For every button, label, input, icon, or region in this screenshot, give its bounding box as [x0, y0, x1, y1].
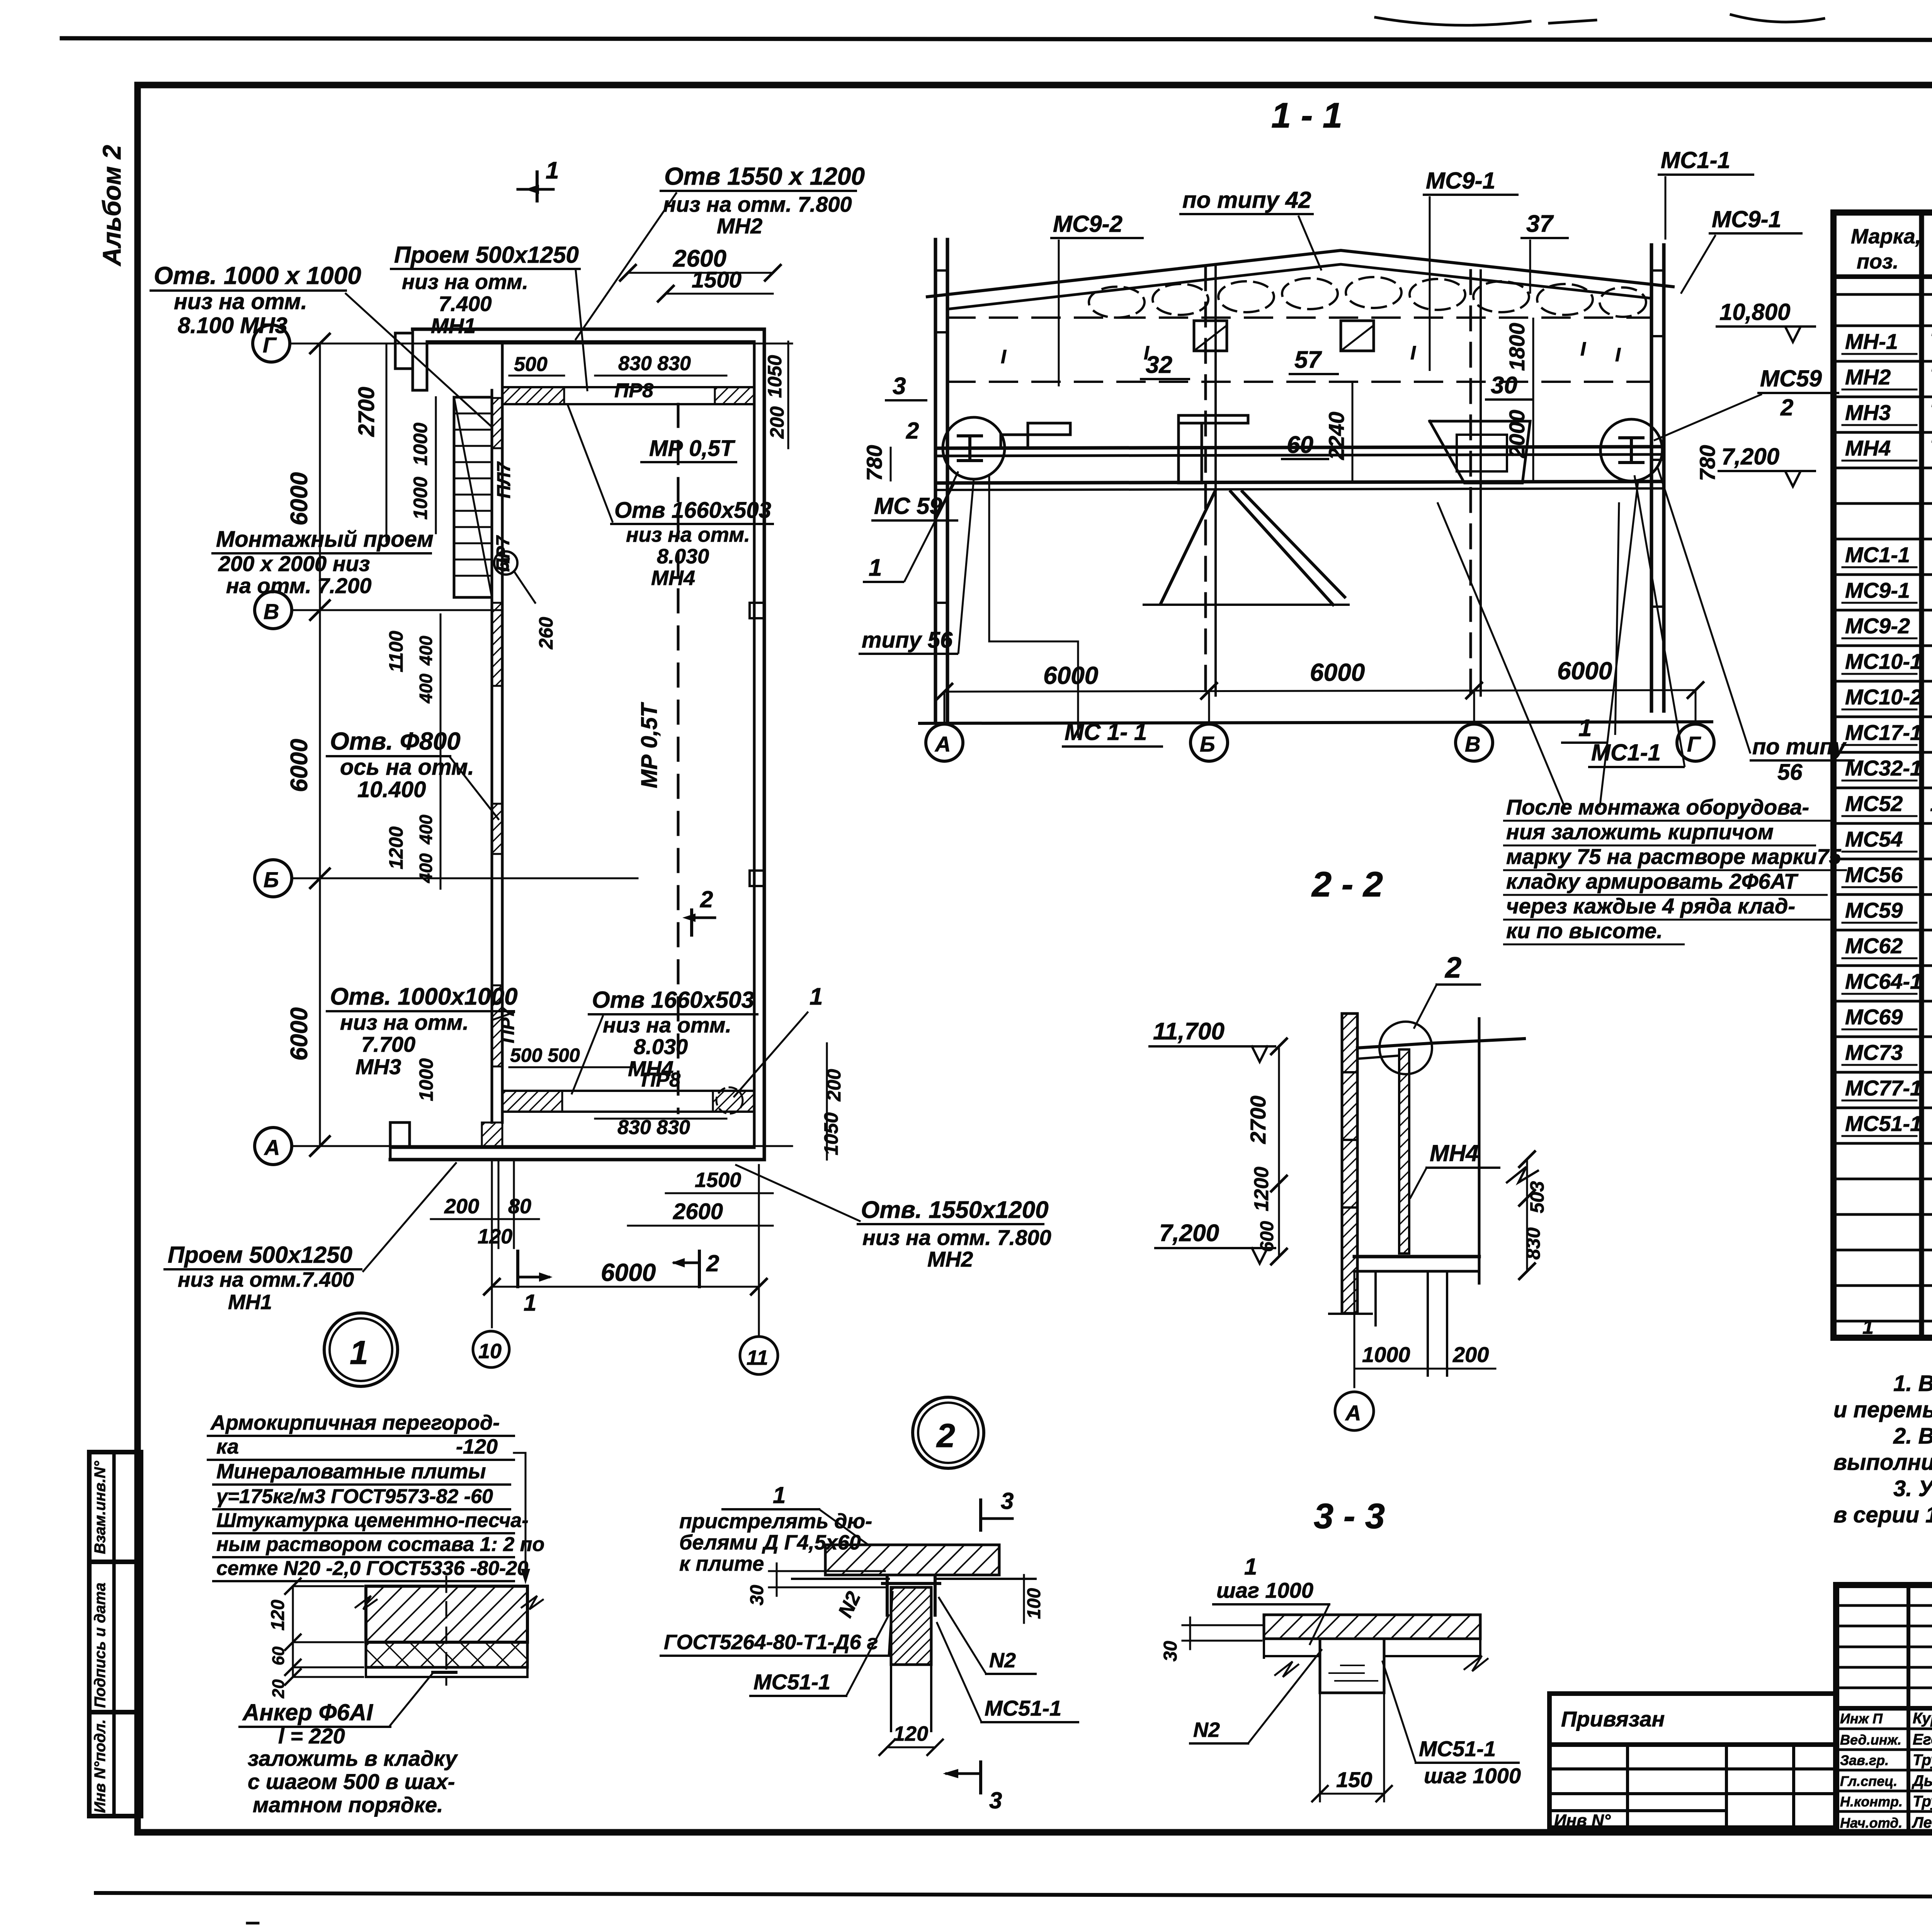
section mark 1 top flag — [536, 172, 539, 201]
svg-text:200 х 2000 низ: 200 х 2000 низ — [218, 551, 370, 576]
svg-text:МН2: МН2 — [927, 1247, 973, 1271]
svg-text:В: В — [264, 599, 279, 624]
svg-text:В: В — [1465, 732, 1480, 756]
svg-text:выполнить перемычку из 3Ф8А: выполнить перемычку из 3Ф8АI — [1833, 1450, 1932, 1475]
svg-text:1000: 1000 — [410, 423, 431, 466]
svg-text:МН4: МН4 — [1845, 436, 1891, 460]
svg-text:1200: 1200 — [1250, 1167, 1273, 1211]
svg-text:по типу 42: по типу 42 — [1182, 187, 1311, 213]
svg-text:I: I — [1615, 344, 1621, 366]
crane rail dashed line MR05T — [677, 404, 680, 1113]
svg-text:3: 3 — [893, 373, 906, 400]
hopper near V axis — [1430, 421, 1530, 483]
top wall of plan — [413, 328, 764, 331]
svg-text:поз.: поз. — [1857, 250, 1899, 273]
svg-text:низ на отм.: низ на отм. — [402, 270, 528, 294]
svg-text:150: 150 — [1336, 1767, 1372, 1792]
svg-text:2: 2 — [906, 418, 919, 444]
axis circle V — [1456, 724, 1493, 761]
svg-text:3 - 3: 3 - 3 — [1314, 1497, 1385, 1536]
svg-text:Армокирпичная перегород-: Армокирпичная перегород- — [210, 1411, 500, 1434]
axis line V — [292, 609, 502, 611]
left part verticals — [1906, 1585, 1910, 1832]
svg-text:60: 60 — [1287, 432, 1313, 458]
break marks — [355, 1596, 377, 1609]
svg-text:200: 200 — [1452, 1342, 1489, 1367]
svg-text:1000: 1000 — [415, 1058, 437, 1101]
roof lower chord — [947, 264, 1651, 309]
svg-text:10: 10 — [478, 1340, 502, 1363]
top centre scan scribbles — [1376, 17, 1530, 25]
svg-text:1: 1 — [1244, 1554, 1257, 1580]
grid axis circle B — [255, 860, 292, 897]
ground mark — [1329, 1313, 1372, 1315]
svg-text:ТП409-28-61.92: ТП409-28-61.92 — [1930, 364, 1932, 389]
section mark 3 top — [979, 1500, 982, 1530]
svg-text:120: 120 — [268, 1600, 288, 1631]
svg-text:2 - 2: 2 - 2 — [1311, 865, 1383, 904]
svg-text:Н.контр.: Н.контр. — [1840, 1794, 1903, 1810]
svg-text:l = 220: l = 220 — [278, 1724, 345, 1748]
plaster layer — [366, 1667, 527, 1677]
svg-text:37: 37 — [1526, 211, 1554, 237]
svg-text:ки по высоте.: ки по высоте. — [1506, 918, 1663, 943]
svg-text:N2: N2 — [1193, 1718, 1220, 1742]
svg-text:500 500: 500 500 — [510, 1044, 580, 1066]
svg-text:МН2: МН2 — [717, 214, 762, 238]
svg-text:Марка,: Марка, — [1851, 225, 1921, 248]
svg-text:Отв 1550 х 1200: Отв 1550 х 1200 — [664, 162, 865, 190]
svg-text:МС1-1: МС1-1 — [1845, 543, 1910, 567]
right wall notch at V axis — [750, 603, 764, 618]
svg-text:низ на отм.: низ на отм. — [174, 289, 307, 314]
bottom wall of plan — [390, 1158, 764, 1162]
break marks — [1275, 1662, 1298, 1677]
svg-text:I: I — [1001, 346, 1007, 367]
svg-text:80: 80 — [508, 1195, 531, 1218]
grid below — [1549, 1745, 1836, 1828]
svg-text:Отв. 1550х1200: Отв. 1550х1200 — [861, 1197, 1049, 1223]
svg-text:кладку армировать 2Ф6АТ: кладку армировать 2Ф6АТ — [1506, 869, 1799, 893]
svg-text:МС73: МС73 — [1845, 1040, 1903, 1065]
left column — [934, 240, 937, 723]
detail circle left MC59 — [943, 417, 1005, 479]
title block outer — [1836, 1585, 1932, 1832]
small box 32 — [1194, 321, 1227, 351]
svg-text:1: 1 — [524, 1290, 536, 1316]
svg-text:через каждые 4 ряда клад-: через каждые 4 ряда клад- — [1506, 894, 1795, 918]
svg-text:низ на отм. 7.800: низ на отм. 7.800 — [663, 192, 852, 216]
roof line — [1357, 1039, 1524, 1048]
ceiling dashed line — [947, 316, 1651, 319]
svg-text:МН4: МН4 — [1430, 1140, 1479, 1166]
dim 100 right rot — [1023, 1575, 1025, 1623]
svg-text:830 830: 830 830 — [617, 1116, 690, 1139]
svg-text:400: 400 — [416, 853, 436, 883]
svg-text:6000: 6000 — [286, 739, 313, 792]
leader to wall — [346, 294, 492, 427]
svg-text:МС62: МС62 — [1845, 934, 1903, 958]
node circle 5 — [494, 551, 517, 575]
svg-text:1.431.6-28. вып.2: 1.431.6-28. вып.2 — [1930, 791, 1932, 816]
svg-text:ния заложить кирпичом: ния заложить кирпичом — [1506, 820, 1774, 844]
svg-text:100: 100 — [1024, 1588, 1044, 1619]
channel under slab — [886, 1577, 889, 1615]
svg-text:сетке N20 -2,0 ГОСТ5336 -80-20: сетке N20 -2,0 ГОСТ5336 -80-20 — [216, 1557, 528, 1580]
svg-text:Проем 500х1250: Проем 500х1250 — [168, 1242, 352, 1268]
svg-text:7.700: 7.700 — [361, 1032, 415, 1056]
svg-text:1: 1 — [869, 554, 882, 581]
svg-text:1100: 1100 — [385, 631, 407, 672]
svg-text:1: 1 — [350, 1334, 368, 1371]
svg-text:I: I — [1580, 338, 1586, 360]
svg-text:57: 57 — [1294, 347, 1322, 373]
svg-text:Взам.инв.N°: Взам.инв.N° — [92, 1461, 109, 1554]
spec table column lines — [1919, 213, 1924, 1338]
svg-text:МС9-1: МС9-1 — [1845, 578, 1910, 602]
pier below — [1320, 1639, 1384, 1693]
svg-text:200: 200 — [766, 406, 788, 439]
diagonal braces — [1161, 490, 1216, 603]
svg-text:500: 500 — [514, 353, 548, 376]
svg-text:1: 1 — [1862, 1316, 1874, 1338]
svg-text:1. Ведомости проемов ворот: 1. Ведомости проемов ворот и дверей, спе… — [1893, 1371, 1932, 1396]
detail node circle 1 — [324, 1313, 398, 1386]
svg-text:Анкер Ф6АI: Анкер Ф6АI — [242, 1699, 373, 1725]
svg-text:МР 0,5Т: МР 0,5Т — [649, 436, 736, 461]
svg-text:МС1-1: МС1-1 — [1661, 147, 1730, 173]
svg-text:6000: 6000 — [1557, 657, 1612, 685]
svg-text:780: 780 — [1695, 445, 1719, 481]
svg-text:8.030: 8.030 — [657, 545, 709, 568]
svg-text:2600: 2600 — [673, 1199, 723, 1224]
svg-text:Монтажный проем: Монтажный проем — [216, 527, 434, 552]
svg-text:МС69: МС69 — [1845, 1005, 1903, 1029]
svg-text:МС59: МС59 — [1845, 898, 1903, 922]
under-slab lines — [1264, 1638, 1480, 1640]
grid circle 10 — [473, 1331, 509, 1367]
svg-text:Куркина: Куркина — [1913, 1710, 1932, 1727]
section mark 2 bottom — [698, 1251, 701, 1287]
svg-text:ГОСТ5264-80-Т1-Д6 г: ГОСТ5264-80-Т1-Д6 г — [664, 1631, 878, 1654]
left wall of plan — [491, 390, 493, 1122]
svg-text:2240: 2240 — [1324, 412, 1349, 460]
anchor mark in wall — [433, 1671, 456, 1674]
svg-text:1000: 1000 — [410, 477, 431, 520]
top-left corner notch — [413, 329, 427, 390]
svg-text:200: 200 — [444, 1195, 479, 1218]
spec table row lines — [1833, 293, 1932, 296]
svg-text:Проем 500х1250: Проем 500х1250 — [394, 242, 579, 268]
wall section: brick layer — [366, 1586, 527, 1642]
bottom sheet edge line — [96, 1893, 1932, 1898]
svg-text:ка: ка — [216, 1435, 239, 1458]
svg-text:10.400: 10.400 — [357, 777, 426, 802]
svg-text:МС10-1: МС10-1 — [1845, 649, 1922, 673]
svg-text:ПР8: ПР8 — [641, 1069, 680, 1091]
spec table header bottom — [1833, 274, 1932, 279]
svg-text:γ=175кг/м3 ГОСТ9573-82 -60: γ=175кг/м3 ГОСТ9573-82 -60 — [216, 1485, 493, 1508]
svg-text:Дыба: Дыба — [1912, 1772, 1932, 1789]
svg-text:Б: Б — [1200, 732, 1215, 756]
svg-text:5: 5 — [499, 555, 510, 575]
svg-text:400: 400 — [416, 636, 436, 666]
svg-text:МН2: МН2 — [1845, 365, 1891, 389]
svg-text:8.030: 8.030 — [634, 1034, 688, 1059]
svg-text:и перемычек см. лист 9: и перемычек см. лист 9 — [1833, 1397, 1932, 1422]
arrow from text to drawing — [514, 1453, 526, 1577]
svg-text:400: 400 — [416, 815, 436, 845]
svg-text:I: I — [1410, 342, 1416, 364]
svg-text:Вед.инж.: Вед.инж. — [1840, 1732, 1901, 1748]
svg-text:МН4: МН4 — [651, 566, 695, 590]
svg-text:3: 3 — [1001, 1488, 1014, 1514]
axis circle G — [1677, 724, 1714, 761]
partition hatched — [1399, 1049, 1409, 1253]
svg-text:Лебедев: Лебедев — [1912, 1814, 1932, 1831]
svg-text:11: 11 — [747, 1346, 768, 1369]
svg-text:МС9-2: МС9-2 — [1845, 614, 1910, 638]
svg-text:Отв. 1000 х 1000: Отв. 1000 х 1000 — [154, 262, 361, 289]
svg-text:МС32-1: МС32-1 — [1845, 756, 1922, 780]
axis line B — [292, 878, 638, 879]
section mark 2 mid flag — [692, 917, 715, 919]
svg-text:6000: 6000 — [1043, 662, 1098, 689]
svg-text:МН3: МН3 — [1845, 400, 1891, 425]
svg-text:N2: N2 — [989, 1649, 1016, 1672]
left wall hatch patches — [492, 398, 502, 448]
svg-text:МС51-1: МС51-1 — [1419, 1736, 1496, 1761]
svg-text:А: А — [1345, 1401, 1361, 1425]
svg-text:МС9-2: МС9-2 — [1053, 211, 1122, 237]
extension verticals to bottom circles — [491, 1160, 493, 1327]
line under slab — [792, 1578, 889, 1580]
svg-text:Минераловатные плиты: Минераловатные плиты — [216, 1460, 486, 1483]
svg-text:1500: 1500 — [695, 1168, 741, 1192]
svg-text:30: 30 — [1491, 372, 1517, 399]
svg-text:Подпись и дата: Подпись и дата — [92, 1583, 109, 1708]
svg-text:1050: 1050 — [820, 1112, 842, 1155]
svg-text:2: 2 — [700, 886, 713, 912]
svg-text:МС9-1: МС9-1 — [1712, 206, 1781, 232]
svg-text:1200: 1200 — [385, 827, 407, 869]
slab voids ovals — [1089, 277, 1646, 318]
svg-text:2: 2 — [1780, 395, 1793, 420]
svg-text:Трубникова: Трубникова — [1913, 1793, 1932, 1810]
dim line left — [1278, 1046, 1280, 1257]
svg-text:30: 30 — [747, 1585, 767, 1605]
svg-text:120: 120 — [478, 1225, 512, 1248]
equipment shape near B — [1179, 415, 1248, 483]
svg-text:6000: 6000 — [1310, 658, 1365, 686]
svg-text:Штукатурка цементно-песча-: Штукатурка цементно-песча- — [216, 1509, 529, 1532]
svg-text:на отм. 7.200: на отм. 7.200 — [226, 573, 371, 598]
svg-text:ным раствором состава 1: 2 по: ным раствором состава 1: 2 по — [216, 1533, 544, 1556]
spec table outer border — [1833, 213, 1932, 1338]
svg-text:ПР8: ПР8 — [614, 379, 653, 402]
svg-text:Отв 1660х503: Отв 1660х503 — [592, 987, 754, 1013]
svg-text:МС 59: МС 59 — [874, 493, 942, 519]
section mark 1 bottom — [516, 1251, 519, 1287]
svg-text:низ на отм. 7.800: низ на отм. 7.800 — [862, 1225, 1051, 1250]
svg-text:30: 30 — [1160, 1641, 1181, 1662]
svg-text:с шагом 500 в шах-: с шагом 500 в шах- — [248, 1769, 455, 1794]
svg-text:400: 400 — [416, 673, 436, 704]
svg-text:Инв N°: Инв N° — [1554, 1811, 1611, 1830]
svg-text:После монтажа оборудова-: После монтажа оборудова- — [1506, 795, 1809, 819]
privyazan box — [1549, 1694, 1836, 1745]
svg-text:32: 32 — [1146, 352, 1172, 378]
intermediate post B axis — [1204, 267, 1207, 696]
svg-text:7.400: 7.400 — [439, 292, 492, 316]
svg-text:к плите: к плите — [679, 1552, 764, 1575]
grid axis circle A — [255, 1128, 292, 1165]
svg-text:1050: 1050 — [764, 355, 786, 398]
svg-text:2: 2 — [936, 1417, 955, 1454]
floor slab — [1354, 1255, 1479, 1259]
right dim 503 830 — [1526, 1159, 1528, 1271]
pier below floor — [1427, 1271, 1429, 1376]
floor beam lines — [935, 447, 1664, 448]
svg-text:6000: 6000 — [601, 1259, 656, 1286]
svg-text:2. В перегородках b = 120мм: 2. В перегородках b = 120мм над проемами… — [1893, 1423, 1932, 1449]
grid axis circle G — [253, 325, 290, 362]
axis circle B — [1190, 724, 1228, 761]
svg-text:А: А — [264, 1135, 280, 1160]
bottom dim line 6000x3 — [944, 690, 1696, 692]
svg-text:шаг 1000: шаг 1000 — [1424, 1764, 1521, 1788]
svg-text:МС1-1: МС1-1 — [1591, 740, 1661, 765]
svg-text:Б: Б — [264, 867, 279, 892]
bottom small tick — [247, 1922, 258, 1925]
svg-text:56: 56 — [1777, 760, 1803, 785]
svg-text:Нач.отд.: Нач.отд. — [1840, 1815, 1902, 1831]
bottom dim 6000 — [492, 1286, 759, 1288]
svg-text:МС54: МС54 — [1845, 827, 1903, 851]
svg-text:-120: -120 — [456, 1435, 498, 1458]
svg-text:матном порядке.: матном порядке. — [253, 1793, 443, 1817]
insulation layer — [366, 1642, 527, 1667]
svg-text:МС 1- 1: МС 1- 1 — [1065, 719, 1147, 745]
svg-text:Инв N°подл.: Инв N°подл. — [92, 1719, 109, 1813]
detail circle right — [1600, 419, 1662, 481]
svg-text:Егоров: Егоров — [1913, 1731, 1932, 1748]
bottom opening lintel band PR8 — [502, 1090, 754, 1092]
axis circle A below — [1354, 1271, 1355, 1387]
svg-text:1: 1 — [810, 983, 823, 1010]
svg-text:Альбом 2: Альбом 2 — [97, 145, 126, 267]
svg-text:3. Узлы замаркированные на: 3. Узлы замаркированные на сечении 1-1 в… — [1893, 1476, 1932, 1501]
top opening lintel band PR8 — [502, 386, 754, 388]
svg-text:Отв. 1000х1000: Отв. 1000х1000 — [330, 983, 518, 1010]
svg-text:МС64-1: МС64-1 — [1845, 969, 1922, 993]
svg-text:низ на отм.: низ на отм. — [603, 1013, 731, 1037]
left part thin rows — [1836, 1604, 1932, 1607]
svg-text:МН-1: МН-1 — [1845, 329, 1898, 354]
svg-text:МН1: МН1 — [228, 1291, 272, 1314]
axis line G — [290, 343, 792, 345]
detail node circle 2 — [913, 1397, 984, 1468]
svg-text:МС9-1: МС9-1 — [1426, 168, 1495, 194]
svg-text:2000: 2000 — [1505, 410, 1529, 458]
right wall of plan — [763, 329, 766, 1160]
axis circle A — [926, 724, 963, 761]
svg-text:120: 120 — [893, 1722, 928, 1745]
svg-text:МС17-1: МС17-1 — [1845, 720, 1922, 745]
roof upper chord — [927, 250, 1673, 297]
svg-text:Инж П: Инж П — [1840, 1711, 1883, 1726]
svg-text:1000: 1000 — [1362, 1342, 1410, 1367]
svg-text:МС59: МС59 — [1760, 366, 1822, 391]
svg-text:830 830: 830 830 — [618, 352, 691, 375]
svg-text:2700: 2700 — [354, 387, 379, 437]
svg-text:Зав.гр.: Зав.гр. — [1840, 1752, 1889, 1768]
svg-text:11,700: 11,700 — [1153, 1018, 1225, 1045]
svg-text:1: 1 — [773, 1482, 786, 1508]
intermediate post V axis — [1469, 270, 1472, 696]
svg-text:Отв 1660х503: Отв 1660х503 — [614, 498, 771, 523]
svg-text:2: 2 — [1444, 951, 1461, 984]
dim 30 left — [769, 1570, 885, 1572]
grid axis circle V — [255, 592, 292, 629]
svg-text:1: 1 — [1578, 715, 1592, 742]
svg-text:ТП409-28-61.92: ТП409-28-61.92 — [1930, 435, 1932, 461]
svg-text:марку 75 на растворе марки75: марку 75 на растворе марки75 — [1506, 844, 1841, 869]
slab hatched — [1264, 1615, 1480, 1639]
svg-text:заложить в кладку: заложить в кладку — [248, 1746, 458, 1770]
section mark 3 bottom — [979, 1762, 982, 1793]
svg-text:низ на отм.: низ на отм. — [340, 1010, 469, 1034]
svg-text:7,200: 7,200 — [1159, 1220, 1219, 1247]
svg-text:ТП409-28-61.92: ТП409-28-61.92 — [1930, 400, 1932, 425]
svg-text:830: 830 — [1522, 1227, 1544, 1260]
axis line A — [292, 1145, 792, 1147]
svg-text:1: 1 — [546, 157, 559, 184]
svg-text:1500: 1500 — [692, 267, 742, 293]
right wall notch at B axis — [750, 871, 764, 886]
svg-text:1800: 1800 — [1505, 323, 1529, 371]
svg-text:780: 780 — [862, 445, 886, 481]
svg-text:типу 56: типу 56 — [862, 628, 953, 653]
vertical dim line between axis circles — [319, 344, 321, 1146]
main wall hatched — [1342, 1014, 1357, 1313]
svg-text:20: 20 — [269, 1679, 288, 1699]
svg-text:низ на отм.: низ на отм. — [626, 523, 750, 546]
right edge line — [1478, 1019, 1481, 1283]
brick pier hatched — [891, 1587, 931, 1665]
svg-text:8.100 МН3: 8.100 МН3 — [178, 313, 287, 338]
svg-text:МС52: МС52 — [1845, 791, 1903, 816]
svg-text:пристрелять дю-: пристрелять дю- — [679, 1510, 872, 1533]
svg-text:Гл.спец.: Гл.спец. — [1840, 1773, 1897, 1789]
svg-text:10,800: 10,800 — [1719, 299, 1791, 325]
svg-text:1 - 1: 1 - 1 — [1271, 96, 1342, 135]
signature rows — [1836, 1728, 1932, 1730]
stair well — [454, 397, 492, 597]
svg-text:МС10-2: МС10-2 — [1845, 685, 1922, 709]
svg-text:МС51-1: МС51-1 — [985, 1696, 1061, 1720]
top scan edge line — [62, 38, 1932, 41]
svg-text:6000: 6000 — [286, 1007, 313, 1061]
svg-text:шаг 1000: шаг 1000 — [1216, 1578, 1313, 1602]
svg-text:6000: 6000 — [286, 472, 313, 526]
right column — [1650, 245, 1653, 711]
left stamp column boxes — [89, 1452, 141, 1816]
svg-text:ПЛ7: ПЛ7 — [494, 461, 514, 499]
svg-text:в серии 1.431.6 -28 вып.1.: в серии 1.431.6 -28 вып.1. — [1833, 1502, 1932, 1527]
small box with flap near 30 — [1341, 321, 1374, 351]
ground line — [920, 722, 1712, 723]
